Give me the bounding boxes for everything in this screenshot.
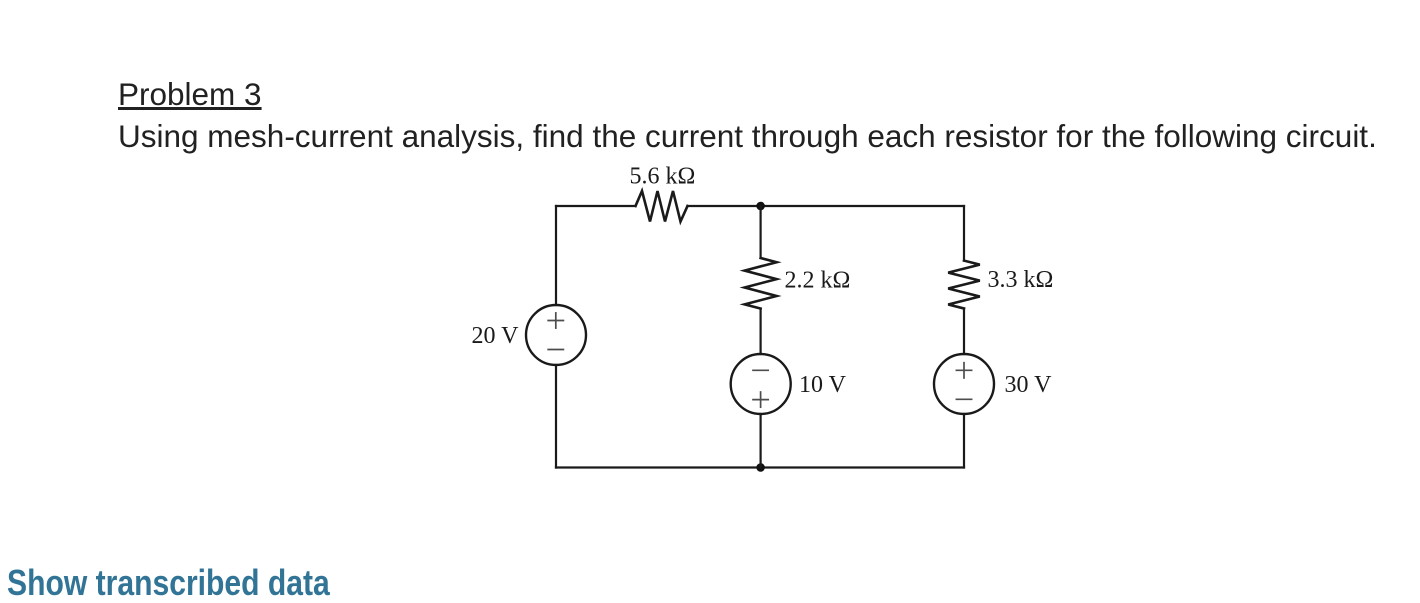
svg-text:2.2 kΩ: 2.2 kΩ — [785, 268, 851, 294]
wire left vertical upper — [555, 206, 557, 305]
wire left vertical lower — [555, 365, 557, 468]
wire top rail right segment — [761, 205, 964, 207]
V2 plus sign — [753, 392, 768, 407]
source V2 10 V circle — [731, 354, 791, 414]
svg-text:30 V: 30 V — [1005, 372, 1053, 398]
wire middle vertical lower — [759, 414, 761, 468]
svg-text:3.3 kΩ: 3.3 kΩ — [988, 267, 1054, 293]
V3 plus sign — [956, 363, 971, 378]
V2 minus sign — [753, 369, 768, 371]
svg-text:20 V: 20 V — [472, 323, 520, 349]
V1 plus sign — [548, 313, 563, 328]
wire middle vertical upper — [759, 206, 761, 258]
node bottom junction dot — [756, 463, 765, 472]
wire top rail middle segment — [688, 205, 761, 207]
resistor R2 2.2 kOhm zigzag — [745, 258, 777, 309]
wire top rail left segment — [556, 205, 636, 207]
wire bottom rail left segment — [556, 466, 761, 468]
title Problem 3 — [118, 79, 262, 111]
wire right vertical mid — [963, 309, 965, 355]
resistor R1 5.6 kOhm zigzag — [636, 191, 688, 222]
svg-text:5.6 kΩ: 5.6 kΩ — [630, 164, 696, 190]
source V3 30 V circle — [934, 354, 994, 414]
wire right vertical lower — [963, 414, 965, 468]
V3 minus sign — [956, 398, 971, 400]
wire right vertical upper — [963, 206, 965, 261]
node top junction dot — [756, 202, 765, 211]
resistor R3 3.3 kOhm zigzag — [948, 261, 980, 309]
problem statement text — [118, 121, 1377, 153]
wire bottom rail right segment — [761, 466, 964, 468]
source V1 20 V circle — [526, 305, 586, 365]
wire middle vertical mid — [759, 309, 761, 354]
link Show transcribed data — [7, 565, 330, 601]
svg-text:10 V: 10 V — [799, 372, 847, 398]
V1 minus sign — [548, 349, 563, 351]
